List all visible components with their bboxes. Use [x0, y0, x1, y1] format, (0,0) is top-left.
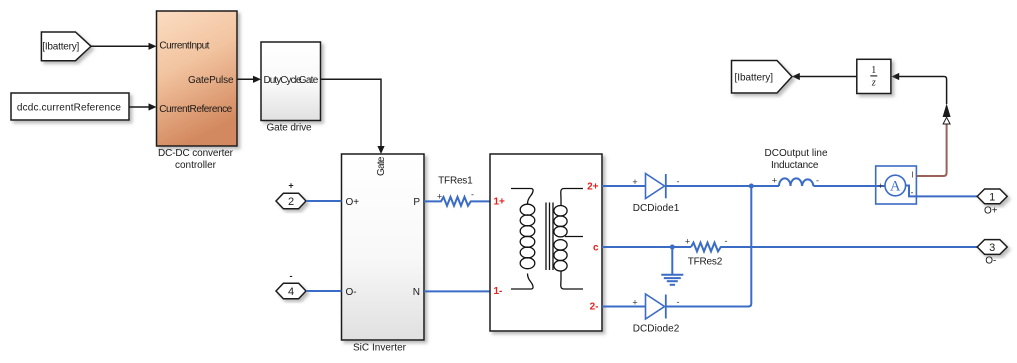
- svg-text:2-: 2-: [590, 302, 599, 313]
- svg-text:+: +: [685, 237, 690, 247]
- svg-text:DCDiode2: DCDiode2: [633, 324, 680, 335]
- svg-text:TFRes2: TFRes2: [688, 256, 723, 267]
- svg-text:-: -: [911, 188, 914, 198]
- svg-text:I: I: [912, 171, 914, 180]
- svg-text:DCOutput line: DCOutput line: [765, 148, 828, 159]
- svg-text:1+: 1+: [494, 196, 506, 207]
- svg-text:+: +: [632, 298, 637, 308]
- svg-text:DCDiode1: DCDiode1: [633, 203, 680, 214]
- svg-text:+: +: [772, 176, 777, 186]
- svg-text:1: 1: [989, 191, 995, 203]
- svg-text:3: 3: [989, 242, 995, 254]
- svg-text:c: c: [593, 243, 599, 254]
- svg-text:CurrentInput: CurrentInput: [159, 40, 209, 51]
- svg-text:[Ibattery]: [Ibattery]: [42, 42, 79, 53]
- svg-text:-: -: [816, 176, 819, 186]
- svg-text:Gate drive: Gate drive: [267, 122, 312, 133]
- svg-text:N: N: [413, 287, 420, 298]
- svg-text:DutyCycle: DutyCycle: [264, 75, 302, 86]
- svg-text:Gate: Gate: [299, 75, 319, 86]
- svg-text:GatePulse: GatePulse: [188, 75, 234, 86]
- svg-text:CurrentReference: CurrentReference: [159, 104, 232, 115]
- svg-text:-: -: [677, 297, 680, 307]
- svg-text:[Ibattery]: [Ibattery]: [735, 72, 774, 83]
- svg-text:2+: 2+: [587, 182, 599, 193]
- svg-text:1: 1: [871, 65, 876, 76]
- svg-text:Inductance: Inductance: [771, 160, 819, 171]
- svg-text:O+: O+: [346, 197, 360, 208]
- svg-text:O-: O-: [346, 287, 357, 298]
- svg-text:+: +: [632, 177, 637, 187]
- svg-text:O+: O+: [984, 205, 998, 216]
- svg-text:z: z: [871, 78, 876, 89]
- svg-text:4: 4: [288, 286, 294, 298]
- svg-text:-: -: [725, 236, 728, 246]
- svg-text:controller: controller: [175, 160, 217, 171]
- svg-text:Gate: Gate: [376, 156, 387, 176]
- svg-text:dcdc.currentReference: dcdc.currentReference: [17, 103, 121, 114]
- svg-text:DC-DC converter: DC-DC converter: [158, 148, 234, 159]
- svg-text:+: +: [437, 192, 442, 202]
- svg-text:-: -: [290, 271, 293, 281]
- svg-text:2: 2: [288, 196, 294, 208]
- svg-text:TFRes1: TFRes1: [438, 175, 473, 186]
- svg-text:P: P: [413, 197, 420, 208]
- svg-text:A: A: [890, 179, 901, 195]
- svg-text:-: -: [677, 177, 680, 187]
- svg-text:-: -: [471, 190, 474, 200]
- svg-text:SiC Inverter: SiC Inverter: [353, 343, 407, 354]
- svg-text:+: +: [878, 181, 883, 191]
- svg-text:+: +: [288, 180, 293, 190]
- svg-text:1-: 1-: [494, 286, 503, 297]
- svg-text:O-: O-: [985, 256, 996, 267]
